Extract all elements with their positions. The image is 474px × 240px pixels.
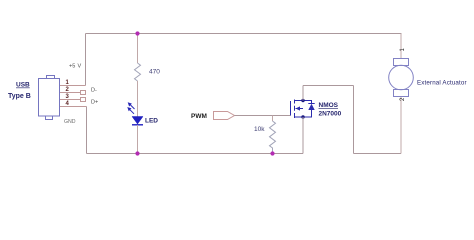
svg-text:External Actuator: External Actuator xyxy=(417,80,467,87)
PWM input tag xyxy=(214,112,235,120)
svg-text:D+: D+ xyxy=(91,100,98,106)
motor body circle xyxy=(389,65,414,90)
wire USB pin 4 lead GND xyxy=(60,106,87,108)
wire drain right drop xyxy=(353,86,355,154)
LED emission arrow upper xyxy=(128,102,135,109)
wire USB pin 3 stub D+ xyxy=(60,99,81,101)
svg-text:LED: LED xyxy=(145,118,158,125)
USB bottom tab xyxy=(46,116,53,120)
channel segment body xyxy=(294,106,296,111)
USB connector J1 xyxy=(39,76,60,120)
svg-text:NMOS: NMOS xyxy=(319,102,339,109)
wire motor top feed xyxy=(400,34,402,59)
body diode branch xyxy=(303,101,315,118)
motor top terminal rect xyxy=(394,59,409,66)
gate bar xyxy=(290,101,292,116)
wire LED branch middle xyxy=(137,81,139,117)
wire source drop to ground rail xyxy=(302,117,304,154)
wire drain top run xyxy=(303,85,354,87)
source node dot xyxy=(301,115,304,118)
wire LED branch upper xyxy=(137,34,139,64)
LED emission arrow lower xyxy=(127,107,134,114)
junction dot bottom of LED branch xyxy=(135,151,139,155)
junction dot 10k bottom xyxy=(270,151,274,155)
drain lead xyxy=(295,100,304,102)
svg-text:Type B: Type B xyxy=(8,93,31,100)
wire 10k drop xyxy=(272,116,274,122)
terminal square D- xyxy=(81,91,86,95)
wire USB pin 1 lead xyxy=(60,85,86,87)
svg-text:+5 V: +5 V xyxy=(69,64,81,70)
body diode triangle xyxy=(308,104,314,110)
svg-text:USB: USB xyxy=(16,82,30,89)
svg-text:2N7000: 2N7000 xyxy=(319,111,342,118)
body lead xyxy=(296,108,304,110)
motor M1 External Actuator xyxy=(389,59,414,97)
body arrow xyxy=(296,106,301,110)
source lead xyxy=(295,116,304,118)
resistor R2 10k xyxy=(270,121,276,154)
wire drain bottom run to motor xyxy=(354,153,402,155)
channel segment drain xyxy=(294,100,296,104)
wire GND drop xyxy=(86,107,88,154)
drain node dot xyxy=(301,99,304,102)
wire USB pin 2 stub D- xyxy=(60,92,81,94)
wire PWM to gate xyxy=(235,115,291,117)
svg-text:GND: GND xyxy=(64,119,76,125)
svg-text:10k: 10k xyxy=(254,126,265,133)
wire bottom ground rail xyxy=(87,153,304,155)
resistor R1 470 xyxy=(135,63,141,81)
wire LED branch lower xyxy=(137,125,139,154)
channel segment source xyxy=(294,113,296,118)
USB body xyxy=(39,79,60,117)
terminal square D+ xyxy=(81,98,86,102)
svg-text:D-: D- xyxy=(91,88,97,94)
junction dot top of LED branch xyxy=(135,31,139,35)
wire drain riser xyxy=(302,86,304,101)
svg-text:470: 470 xyxy=(149,69,160,76)
wire +5V riser from USB pin 1 xyxy=(85,34,87,86)
wire top rail +5V net xyxy=(86,33,402,35)
LED D1 triangle and bar xyxy=(132,117,143,125)
wire motor bottom drop xyxy=(400,97,402,154)
svg-text:PWM: PWM xyxy=(191,113,207,120)
USB top tab xyxy=(47,76,55,79)
transistor Q1 NMOS 2N7000 xyxy=(291,100,315,119)
motor bottom terminal rect xyxy=(394,90,409,97)
